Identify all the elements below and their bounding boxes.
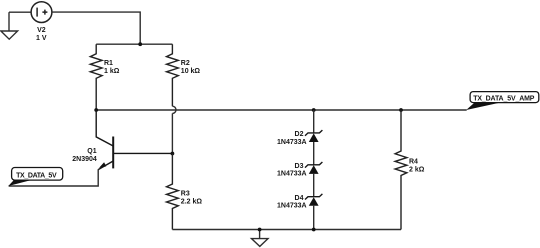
node ground junction [258, 228, 262, 232]
wire V2 to top rail [52, 12, 140, 44]
net flag TX_DATA_5V_AMP [466, 92, 539, 110]
svg-text:2N3904: 2N3904 [72, 156, 97, 163]
svg-text:D2: D2 [295, 131, 304, 138]
zener diode D3 [305, 162, 322, 174]
zener column wires [313, 110, 315, 230]
node zener top [312, 108, 316, 112]
svg-text:2 kΩ: 2 kΩ [409, 167, 425, 174]
svg-text:2.2 kΩ: 2.2 kΩ [181, 199, 203, 206]
node zener bottom [312, 228, 316, 232]
svg-text:R2: R2 [181, 60, 190, 67]
label Q1 [72, 148, 97, 163]
resistor R3 [167, 154, 179, 230]
zener diode D4 [305, 194, 322, 206]
transistor Q1 [96, 110, 172, 170]
svg-text:D4: D4 [295, 195, 304, 202]
svg-text:R4: R4 [409, 159, 418, 166]
ground (top-left) [1, 12, 18, 39]
svg-text:Q1: Q1 [87, 148, 96, 155]
svg-text:D3: D3 [295, 163, 304, 170]
node R4 top [399, 108, 403, 112]
wire R2 to base node [171, 113, 173, 153]
svg-text:TX_DATA_5V: TX_DATA_5V [16, 173, 57, 180]
svg-text:1 V: 1 V [36, 35, 47, 42]
wire ground to V2 [9, 11, 31, 13]
svg-text:R1: R1 [104, 60, 113, 67]
label V2 value [36, 27, 47, 42]
bottom rail [172, 229, 401, 231]
resistor R2 [167, 44, 179, 106]
svg-text:TX_DATA_5V_AMP: TX_DATA_5V_AMP [473, 95, 535, 102]
main rail (collector rail) [96, 109, 467, 111]
svg-text:V2: V2 [37, 27, 46, 34]
wire emitter down-left to flag [9, 169, 99, 186]
svg-text:1 kΩ: 1 kΩ [104, 68, 120, 75]
svg-text:10 kΩ: 10 kΩ [181, 68, 201, 75]
svg-text:1N4733A: 1N4733A [277, 171, 307, 178]
svg-text:R3: R3 [181, 191, 190, 198]
resistor R1 [90, 44, 102, 110]
emitter arrow [99, 162, 106, 168]
net flag TX_DATA_5V [8, 168, 62, 187]
svg-text:1N4733A: 1N4733A [277, 203, 307, 210]
node R1/collector junction [94, 108, 98, 112]
ground (bottom) [252, 230, 269, 247]
wire hop over main rail [172, 106, 176, 113]
node base/R3 junction [171, 152, 175, 156]
voltage source V2 [31, 2, 52, 23]
zener diode D2 [305, 130, 322, 142]
wire top rail [96, 43, 172, 45]
resistor R4 [395, 110, 407, 230]
node junction V2/top rail [138, 42, 142, 46]
svg-text:1N4733A: 1N4733A [277, 139, 307, 146]
